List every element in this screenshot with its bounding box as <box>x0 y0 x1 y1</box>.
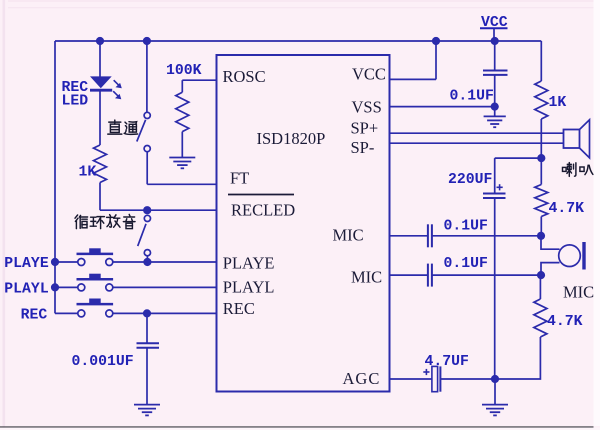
wire: AGC pin to C6 <box>390 378 432 380</box>
wire: R5 top stub <box>539 275 541 299</box>
wire: C3 to MIC1 node <box>432 235 541 237</box>
svg-text:0.1UF: 0.1UF <box>450 89 494 105</box>
wire: R5 bottom to AGC node <box>495 337 540 379</box>
microphone MK1 body <box>559 242 584 270</box>
svg-text:LED: LED <box>62 94 89 110</box>
page left stripe <box>3 0 6 430</box>
node junction dot <box>491 375 499 383</box>
chinese text tong (direct) 2 <box>124 122 137 135</box>
page bottom border line <box>0 426 594 427</box>
wire: C5 branch down from REC row <box>146 313 148 343</box>
capacitor C2 polarity + <box>497 184 503 190</box>
wire: LED branch from rail <box>99 41 101 77</box>
ground under C1 0.1UF <box>484 115 506 117</box>
svg-text:PLAYE: PLAYE <box>223 253 275 272</box>
capacitor C4 0.1UF plates <box>428 264 432 287</box>
wire: VCC riser to rail <box>435 41 437 79</box>
switch S1 bottom contact <box>144 146 150 152</box>
LED light arrow 1 <box>114 80 122 88</box>
wire: VCC symbol stub <box>493 29 495 41</box>
wire: PLAYE row left segment <box>55 261 78 263</box>
wire: R3 bottom to node <box>540 119 542 158</box>
svg-text:MIC: MIC <box>563 283 594 302</box>
wire: MIC2 pin to C4 <box>390 274 428 276</box>
wire: AGC node to ground <box>494 379 496 404</box>
resistor R5 4.7K zigzag <box>534 299 547 337</box>
pushbutton REC <box>77 299 114 317</box>
page right margin <box>594 0 600 426</box>
svg-text:4.7K: 4.7K <box>547 314 583 330</box>
svg-text:REC: REC <box>21 307 48 323</box>
LED light arrow 2 <box>113 91 121 99</box>
chinese text huan (loop) 2 <box>90 217 104 229</box>
node junction dot <box>143 258 151 266</box>
svg-text:PLAYL: PLAYL <box>4 281 49 297</box>
svg-text:SP-: SP- <box>351 138 375 157</box>
node junction dot <box>432 37 440 45</box>
wire: node to 220UF cap <box>495 157 542 159</box>
wire: PLAYL row right segment <box>113 286 217 288</box>
wire: C1 top stub <box>494 41 496 71</box>
node junction dot <box>537 232 545 240</box>
capacitor C5 0.001UF plates <box>137 343 160 347</box>
node junction dot <box>537 271 545 279</box>
svg-text:1K: 1K <box>549 95 567 111</box>
svg-text:SP+: SP+ <box>351 119 379 138</box>
svg-text:RECLED: RECLED <box>231 201 295 220</box>
wire: VCC pin to riser <box>390 78 437 80</box>
wire: C1 bottom to VSS node and ground <box>494 75 496 116</box>
resistor R2 1K (left) zigzag <box>94 145 107 183</box>
switch S2 lever <box>138 224 146 246</box>
resistor R1 100K zigzag <box>176 92 189 131</box>
wire: PLAYE row right segment <box>113 261 217 263</box>
svg-text:ROSC: ROSC <box>223 67 266 86</box>
capacitor C6 polarity + <box>423 369 429 375</box>
wire: C2 bottom bus down to AGC node <box>494 198 496 379</box>
svg-text:PLAYE: PLAYE <box>4 256 49 272</box>
wire: R4 bottom to MIC1 node <box>540 217 542 236</box>
capacitor C6 4.7UF plates <box>432 366 441 391</box>
node junction dot <box>96 37 104 45</box>
svg-text:220UF: 220UF <box>448 172 492 188</box>
ground under AGC node <box>482 404 508 406</box>
wire: RECLED horizontal to IC <box>100 209 217 211</box>
svg-text:PLAYL: PLAYL <box>223 277 275 296</box>
svg-text:VCC: VCC <box>352 65 386 84</box>
svg-text:1K: 1K <box>79 165 97 181</box>
svg-text:0.001UF: 0.001UF <box>72 354 134 370</box>
chinese text fang (loop) 3 <box>107 215 120 228</box>
switch S1 lever <box>137 120 146 142</box>
wire: C4 to MIC2 node <box>432 274 541 276</box>
LED D1 cathode bar <box>90 89 112 92</box>
wire: mic lower lead <box>541 263 560 276</box>
chinese text la (speaker) 1 <box>563 163 576 177</box>
wire: LED cathode to resistor <box>99 90 101 145</box>
capacitor C2 220UF plates <box>483 194 506 199</box>
svg-text:4.7K: 4.7K <box>549 201 585 217</box>
wire: S1 bottom to FT elbow <box>146 152 148 185</box>
node junction dot <box>143 206 151 214</box>
wire: 1K branch down from rail <box>540 41 542 81</box>
svg-text:4.7UF: 4.7UF <box>425 354 469 370</box>
LED D1 triangle <box>90 76 112 90</box>
wire: switch S1 branch from rail <box>146 41 148 112</box>
pushbutton PLAYL <box>77 274 114 291</box>
wire: SP+ to speaker <box>390 132 564 134</box>
wire: C2 220UF top stub <box>494 158 496 193</box>
wire: ROSC pin to 100K <box>182 79 216 81</box>
speaker LS1 cone <box>580 120 590 158</box>
wire: C5 bottom to ground <box>146 348 148 405</box>
node junction dot <box>537 154 545 162</box>
node junction dot <box>51 258 59 266</box>
svg-text:VSS: VSS <box>352 98 382 117</box>
node junction dot <box>491 37 499 45</box>
wire: top VCC rail <box>55 40 541 42</box>
op-amp/IC U1 ISD1820P body <box>217 55 390 392</box>
wire: R2 bottom to RECLED net <box>99 183 101 211</box>
power symbol VCC <box>480 15 508 31</box>
resistor R3 1K zigzag <box>535 81 548 119</box>
svg-text:ISD1820P: ISD1820P <box>257 129 326 148</box>
pin label RECLED overbar <box>228 194 294 196</box>
wire: SP- to speaker <box>390 142 564 144</box>
node junction dot <box>143 37 151 45</box>
wire: 100K top elbow <box>181 80 183 92</box>
switch S2 (loop play) top contact <box>138 215 151 256</box>
speaker LS1 box <box>564 120 590 158</box>
page bottom margin <box>0 428 600 430</box>
wire: FT horizontal to IC <box>147 183 216 185</box>
wire: REC row left segment <box>55 312 78 314</box>
switch S2 bottom contact <box>144 250 150 256</box>
chinese text xun (loop) 1 <box>75 215 88 229</box>
ground under C5 0.001UF <box>134 404 160 406</box>
wire: left bus vertical <box>54 41 56 313</box>
wire: mic upper lead <box>541 236 560 249</box>
wire: MIC1 pin to C3 <box>390 235 428 237</box>
wire: REC row right segment <box>113 312 217 314</box>
svg-text:0.1UF: 0.1UF <box>444 256 488 272</box>
wire: PLAYL row left segment <box>55 286 78 288</box>
ground under R1 100K <box>169 157 195 159</box>
node junction dot <box>51 283 59 291</box>
wire: 100K bottom to ground <box>181 132 183 158</box>
chinese text yin (loop) 4 <box>123 214 135 228</box>
wire: VSS pin to ground node <box>390 106 495 108</box>
svg-text:AGC: AGC <box>343 369 381 388</box>
capacitor C3 0.1UF plates <box>428 224 432 247</box>
svg-text:0.1UF: 0.1UF <box>444 218 488 234</box>
svg-text:MIC: MIC <box>351 268 382 287</box>
resistor R4 4.7K zigzag <box>535 185 548 217</box>
chinese text zhi (direct) 1 <box>108 120 122 134</box>
svg-text:FT: FT <box>230 169 249 188</box>
wire: C6 to AGC node <box>440 378 495 380</box>
switch S1 (direct) top contact <box>137 112 150 151</box>
wire: switch S2 stub to PLAYE row <box>146 256 148 262</box>
chinese text ba (speaker) 2 <box>580 165 593 174</box>
wire: R4 top stub <box>540 158 542 184</box>
page top faint lines <box>8 1 600 8</box>
microphone MK1 electret bar <box>582 242 585 270</box>
node junction dot <box>143 309 151 317</box>
capacitor C1 0.1UF plates <box>483 71 508 75</box>
svg-text:MIC: MIC <box>333 226 364 245</box>
node junction dot <box>491 103 499 111</box>
pushbutton PLAYE <box>77 248 114 265</box>
svg-text:REC: REC <box>223 299 255 318</box>
svg-text:100K: 100K <box>166 63 202 79</box>
